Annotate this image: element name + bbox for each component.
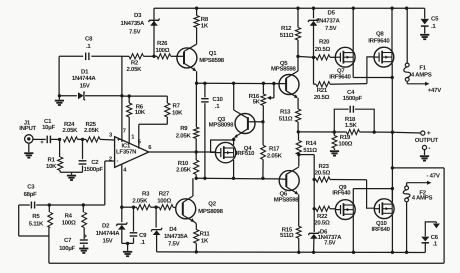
svg-text:Q8: Q8 — [376, 31, 384, 38]
svg-text:C10: C10 — [212, 96, 223, 103]
svg-text:1500pF: 1500pF — [84, 166, 104, 173]
svg-text:Q2: Q2 — [208, 200, 216, 207]
svg-text:2.05K: 2.05K — [176, 166, 192, 173]
svg-text:511Ω: 511Ω — [280, 232, 294, 239]
svg-text:2.05K: 2.05K — [84, 127, 100, 134]
svg-text:IRF9640: IRF9640 — [368, 38, 390, 45]
svg-text:511Ω: 511Ω — [279, 115, 293, 122]
svg-text:1N4735A: 1N4735A — [121, 20, 146, 27]
svg-text:15V: 15V — [80, 83, 90, 90]
svg-text:1K: 1K — [201, 22, 209, 29]
svg-text:D5: D5 — [328, 10, 336, 17]
svg-text:100Ω: 100Ω — [338, 141, 352, 148]
svg-text:20.5Ω: 20.5Ω — [315, 169, 331, 176]
svg-text:2.05K: 2.05K — [267, 152, 283, 159]
svg-text:100Ω: 100Ω — [156, 47, 170, 54]
svg-text:511Ω: 511Ω — [280, 32, 294, 39]
svg-text:C8: C8 — [85, 35, 93, 42]
svg-text:10K: 10K — [172, 110, 183, 117]
svg-text:20.5Ω: 20.5Ω — [314, 219, 330, 226]
svg-text:D4: D4 — [169, 226, 177, 233]
svg-text:10µF: 10µF — [42, 124, 55, 131]
svg-text:4 AMPS: 4 AMPS — [411, 72, 432, 79]
svg-text:+47V: +47V — [428, 87, 441, 94]
svg-text:R24: R24 — [64, 121, 75, 128]
svg-text:2.05K: 2.05K — [63, 127, 79, 134]
svg-text:MPS8098: MPS8098 — [198, 208, 224, 215]
svg-text:R2: R2 — [131, 60, 139, 67]
svg-text:R3: R3 — [142, 190, 150, 197]
svg-text:R1: R1 — [48, 156, 56, 163]
svg-text:100Ω: 100Ω — [62, 220, 76, 227]
svg-text:1K: 1K — [201, 238, 209, 245]
svg-text:R5: R5 — [32, 213, 40, 220]
svg-text:2.05K: 2.05K — [127, 66, 143, 73]
svg-text:MPS8598: MPS8598 — [274, 196, 300, 203]
svg-text:7: 7 — [123, 128, 126, 134]
svg-text:+: + — [427, 130, 431, 137]
svg-text:IC1: IC1 — [122, 142, 132, 149]
svg-text:7.5V: 7.5V — [168, 241, 180, 248]
svg-text:- 47V: - 47V — [427, 173, 440, 180]
svg-text:D1: D1 — [81, 69, 89, 76]
svg-text:LF357N: LF357N — [116, 149, 136, 156]
svg-text:OUTPUT: OUTPUT — [415, 137, 439, 144]
svg-text:1N4744A: 1N4744A — [96, 230, 121, 237]
svg-text:MPS8598: MPS8598 — [199, 57, 225, 64]
svg-text:C3: C3 — [27, 183, 35, 190]
svg-text:R17: R17 — [269, 145, 280, 152]
svg-text:R21: R21 — [317, 87, 328, 94]
svg-text:R10: R10 — [178, 160, 189, 167]
svg-text:C7: C7 — [64, 237, 72, 244]
svg-text:R25: R25 — [86, 121, 97, 128]
svg-text:Q7: Q7 — [337, 68, 345, 75]
svg-text:100µF: 100µF — [59, 245, 75, 252]
svg-text:1.5K: 1.5K — [345, 122, 358, 129]
svg-text:IRF640: IRF640 — [372, 226, 391, 233]
svg-text:R22: R22 — [317, 213, 328, 220]
svg-text:R18: R18 — [345, 116, 356, 123]
svg-text:20.5Ω: 20.5Ω — [315, 46, 331, 53]
svg-text:R7: R7 — [173, 102, 181, 109]
svg-text:1N4744A: 1N4744A — [72, 75, 97, 82]
svg-text:5K: 5K — [253, 99, 261, 106]
svg-text:1500pF: 1500pF — [343, 95, 363, 102]
svg-text:2: 2 — [109, 155, 112, 162]
svg-text:7.5V: 7.5V — [325, 25, 337, 32]
svg-text:R23: R23 — [319, 163, 330, 170]
svg-text:R14: R14 — [306, 140, 317, 147]
svg-text:4 AMPS: 4 AMPS — [412, 194, 433, 201]
svg-text:F1: F1 — [419, 64, 426, 71]
svg-text:IRF9640: IRF9640 — [329, 74, 351, 81]
svg-text:C1: C1 — [44, 118, 52, 125]
svg-text:IRF640: IRF640 — [332, 190, 351, 197]
svg-text:100Ω: 100Ω — [157, 197, 171, 204]
svg-text:MPS8098: MPS8098 — [209, 122, 235, 129]
svg-text:D2: D2 — [102, 223, 110, 230]
svg-text:R19: R19 — [340, 134, 351, 141]
svg-text:IRF510: IRF510 — [236, 150, 255, 157]
svg-text:20.5Ω: 20.5Ω — [314, 94, 330, 101]
svg-text:R9: R9 — [180, 125, 188, 132]
svg-text:Q6: Q6 — [280, 190, 288, 197]
svg-text:1N4735A: 1N4735A — [164, 233, 189, 240]
svg-text:R27: R27 — [159, 190, 170, 197]
svg-text:Q1: Q1 — [209, 50, 217, 57]
svg-text:5.11K: 5.11K — [29, 220, 44, 227]
svg-text:INPUT: INPUT — [19, 125, 36, 132]
svg-text:R12: R12 — [281, 25, 292, 32]
svg-text:68pF: 68pF — [24, 191, 38, 198]
svg-text:C2: C2 — [91, 159, 99, 166]
svg-text:7.5V: 7.5V — [129, 28, 141, 35]
svg-text:R20: R20 — [319, 39, 330, 46]
svg-text:MPS8598: MPS8598 — [271, 65, 297, 72]
svg-text:511Ω: 511Ω — [303, 147, 317, 154]
svg-text:R8: R8 — [201, 16, 209, 23]
svg-text:1N4737A: 1N4737A — [316, 17, 341, 24]
svg-text:R13: R13 — [280, 108, 291, 115]
svg-text:15V: 15V — [103, 238, 113, 245]
svg-text:10K: 10K — [46, 163, 57, 170]
svg-text:2.05K: 2.05K — [132, 197, 148, 204]
svg-text:R11: R11 — [200, 231, 211, 238]
svg-text:7.5V: 7.5V — [324, 239, 336, 246]
svg-text:R4: R4 — [65, 212, 73, 219]
svg-text:2.05K: 2.05K — [176, 132, 192, 139]
svg-text:R26: R26 — [157, 40, 168, 47]
svg-text:C6: C6 — [431, 234, 439, 241]
svg-text:C9: C9 — [139, 232, 147, 239]
svg-text:10K: 10K — [135, 109, 146, 116]
svg-text:D3: D3 — [134, 12, 142, 19]
svg-text:Q10: Q10 — [376, 220, 388, 227]
svg-text:C5: C5 — [431, 16, 439, 23]
